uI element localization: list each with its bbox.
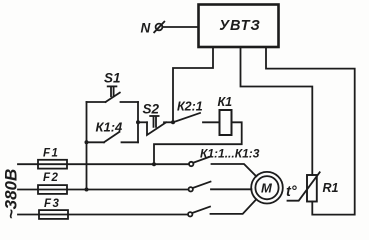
- svg-text:К2:1: К2:1: [177, 100, 203, 114]
- svg-text:К1:4: К1:4: [96, 120, 124, 135]
- svg-text:S2: S2: [143, 102, 160, 117]
- svg-text:F3: F3: [44, 198, 60, 210]
- svg-text:t°: t°: [286, 184, 297, 200]
- svg-text:К1:1...К1:3: К1:1...К1:3: [200, 147, 260, 161]
- svg-text:R1: R1: [323, 181, 339, 195]
- svg-text:S1: S1: [104, 71, 121, 86]
- svg-text:~380В: ~380В: [2, 169, 21, 220]
- svg-text:N: N: [141, 21, 151, 36]
- svg-text:К1: К1: [218, 95, 233, 109]
- svg-text:УВТЗ: УВТЗ: [219, 18, 261, 34]
- svg-text:M: M: [261, 181, 273, 196]
- svg-text:F1: F1: [43, 148, 59, 160]
- svg-text:F2: F2: [43, 172, 59, 184]
